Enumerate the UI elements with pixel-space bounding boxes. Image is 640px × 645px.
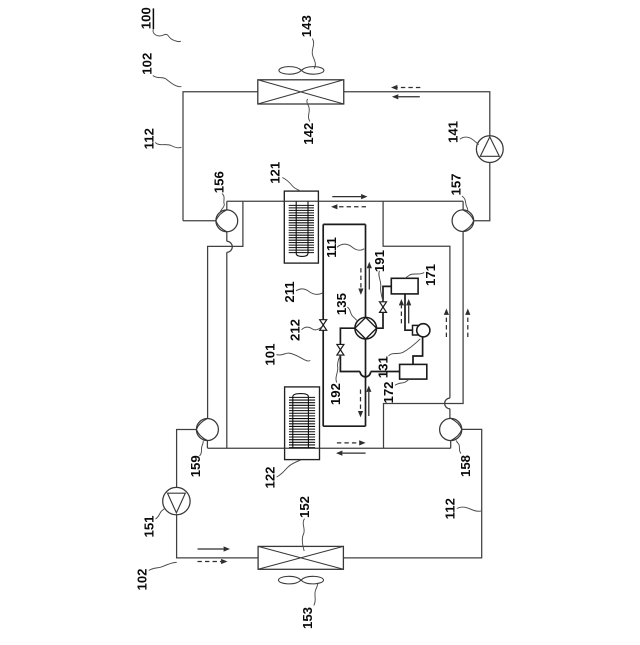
svg-text:121: 121: [268, 162, 283, 184]
svg-text:111: 111: [324, 237, 339, 258]
svg-text:158: 158: [458, 455, 473, 477]
svg-text:143: 143: [299, 15, 314, 37]
svg-text:112: 112: [442, 498, 457, 519]
svg-text:100: 100: [139, 7, 154, 29]
svg-text:157: 157: [448, 173, 463, 195]
svg-text:211: 211: [282, 281, 297, 302]
svg-text:171: 171: [423, 264, 438, 286]
svg-text:141: 141: [445, 121, 460, 143]
svg-text:153: 153: [300, 607, 315, 629]
svg-text:135: 135: [334, 293, 349, 315]
svg-text:101: 101: [262, 344, 277, 366]
svg-text:142: 142: [301, 123, 316, 145]
svg-text:172: 172: [381, 381, 396, 403]
svg-text:191: 191: [372, 250, 387, 272]
svg-text:192: 192: [328, 383, 343, 405]
svg-text:131: 131: [376, 356, 391, 378]
svg-text:152: 152: [297, 496, 312, 518]
svg-text:159: 159: [188, 455, 203, 477]
svg-text:122: 122: [262, 466, 277, 488]
svg-text:151: 151: [141, 515, 156, 537]
svg-text:112: 112: [141, 128, 156, 149]
svg-text:102: 102: [140, 53, 155, 75]
svg-text:102: 102: [134, 568, 149, 590]
svg-text:156: 156: [211, 171, 226, 193]
svg-text:212: 212: [288, 319, 303, 341]
